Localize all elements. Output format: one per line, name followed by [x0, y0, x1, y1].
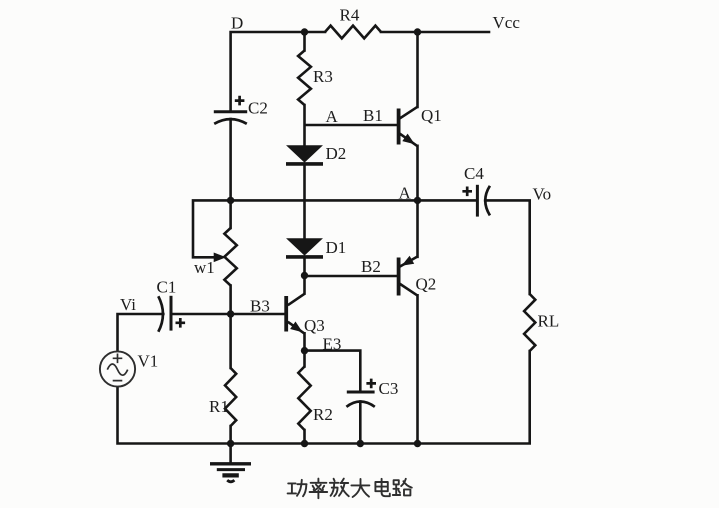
svg-text:A: A	[399, 184, 412, 203]
svg-text:R2: R2	[313, 405, 333, 424]
svg-text:R4: R4	[340, 6, 360, 25]
svg-text:Q2: Q2	[416, 275, 437, 294]
svg-text:C4: C4	[464, 164, 484, 183]
svg-text:RL: RL	[538, 312, 560, 331]
svg-text:w1: w1	[194, 258, 215, 277]
svg-text:B2: B2	[361, 257, 381, 276]
svg-text:Vcc: Vcc	[493, 13, 521, 32]
svg-text:C2: C2	[248, 99, 268, 118]
svg-text:A: A	[326, 107, 339, 126]
svg-text:Vo: Vo	[533, 185, 552, 204]
svg-text:D1: D1	[326, 238, 347, 257]
svg-text:V1: V1	[138, 352, 159, 371]
svg-text:R3: R3	[313, 67, 333, 86]
svg-text:E3: E3	[323, 335, 342, 354]
svg-text:R1: R1	[209, 397, 229, 416]
svg-text:C1: C1	[157, 278, 177, 297]
svg-text:Vi: Vi	[120, 295, 136, 314]
svg-text:D2: D2	[326, 144, 347, 163]
svg-text:Q1: Q1	[421, 106, 442, 125]
svg-text:B1: B1	[363, 106, 383, 125]
svg-text:Q3: Q3	[304, 316, 325, 335]
svg-text:D: D	[231, 14, 243, 33]
svg-text:C3: C3	[379, 379, 399, 398]
svg-text:B3: B3	[250, 297, 270, 316]
